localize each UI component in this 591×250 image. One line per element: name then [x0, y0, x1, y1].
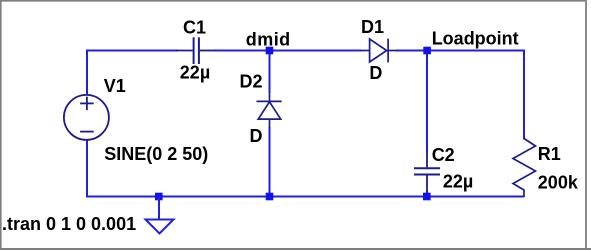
resistor R1 [513, 139, 536, 198]
wire dmid vertical to D2 [269, 51, 271, 94]
diode D2 [257, 92, 282, 128]
capacitor C1 [176, 37, 215, 64]
frame border top [0, 0, 587, 2]
svg-text:R1: R1 [538, 144, 561, 164]
frame border left [0, 0, 2, 250]
svg-text:200k: 200k [538, 172, 579, 192]
node dmid junction [266, 47, 274, 55]
wire top: C1 right lead to D1 [214, 50, 361, 52]
wire left: top corner down to V1 [86, 50, 88, 95]
node C2-bottom junction [423, 193, 431, 201]
svg-text:Loadpoint: Loadpoint [432, 29, 519, 49]
svg-text:22µ: 22µ [443, 172, 473, 192]
svg-text:.tran 0 1 0 0.001: .tran 0 1 0 0.001 [2, 214, 136, 234]
node ground junction [155, 193, 163, 201]
frame border bottom [0, 248, 591, 250]
node Loadpoint junction [423, 47, 431, 55]
svg-text:dmid: dmid [246, 29, 291, 49]
svg-text:D: D [369, 63, 382, 83]
wire top: D1 to top-right corner [396, 50, 524, 52]
wire C2 bottom to bottom rail [426, 191, 428, 197]
ground symbol [146, 197, 174, 234]
svg-text:SINE(0 2 50): SINE(0 2 50) [104, 144, 208, 164]
wire D2 bottom to bottom rail [269, 127, 271, 197]
svg-text:C1: C1 [183, 17, 206, 37]
capacitor C2 [414, 152, 440, 192]
wire left: V1 bottom to bottom-left corner [86, 141, 88, 198]
wire top: V1 top to C1 left lead [87, 50, 178, 52]
svg-text:D: D [250, 126, 263, 146]
svg-text:V1: V1 [104, 76, 126, 96]
node D2-bottom junction [266, 193, 274, 201]
voltage source V1 [64, 95, 109, 140]
diode D1 [360, 39, 397, 63]
svg-text:C2: C2 [432, 145, 455, 165]
wire Loadpoint vertical to C2 [426, 51, 428, 153]
frame border right [585, 0, 587, 250]
wire right: corner down to R1 [523, 50, 525, 140]
svg-text:22µ: 22µ [180, 62, 210, 82]
svg-text:D1: D1 [361, 17, 384, 37]
wire bottom: left corner to R1 bottom [87, 196, 524, 198]
svg-text:D2: D2 [240, 71, 263, 91]
